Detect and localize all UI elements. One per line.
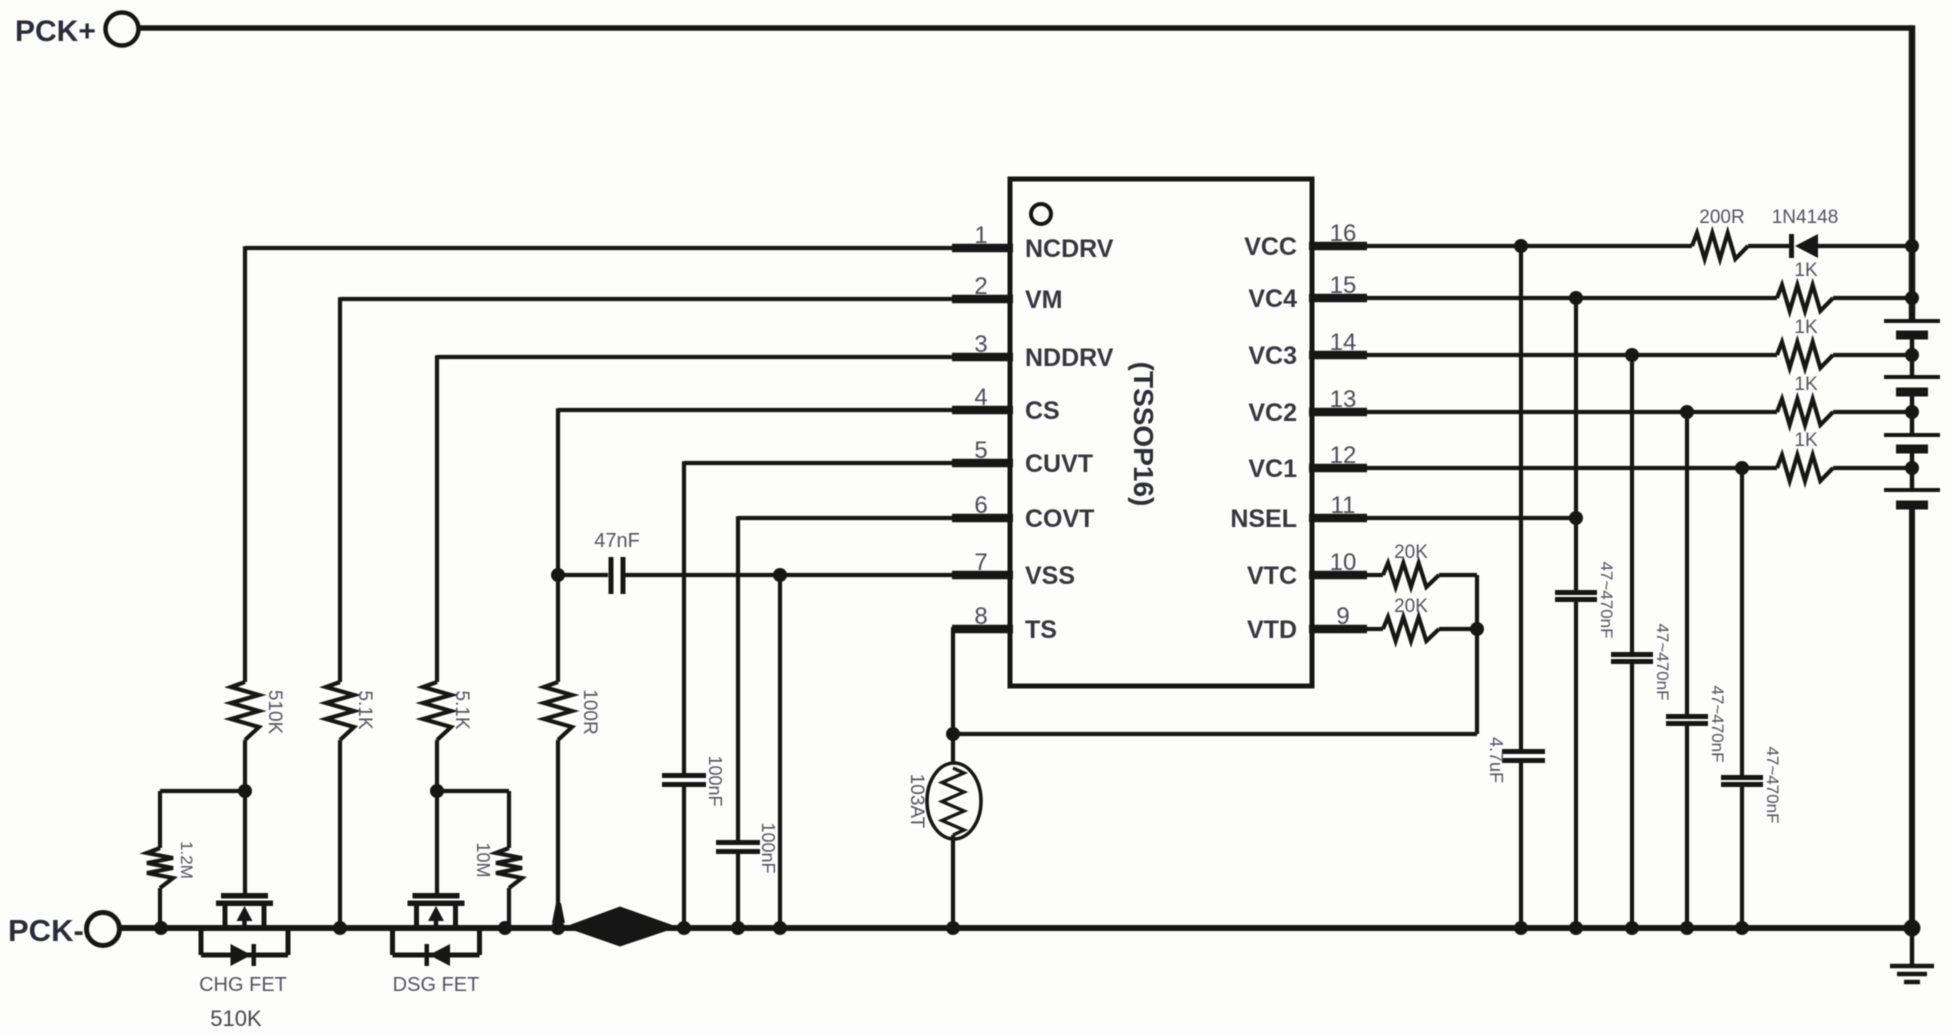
svg-text:1K: 1K (1794, 430, 1818, 451)
svg-text:5: 5 (974, 437, 987, 464)
svg-text:7: 7 (974, 549, 987, 576)
svg-text:1.2M: 1.2M (177, 841, 196, 879)
svg-text:VC2: VC2 (1248, 399, 1297, 427)
svg-text:510K: 510K (264, 690, 285, 735)
svg-text:1K: 1K (1794, 260, 1818, 281)
svg-text:10M: 10M (473, 842, 493, 877)
svg-text:CHG FET: CHG FET (199, 974, 287, 996)
svg-text:VM: VM (1025, 286, 1063, 314)
svg-text:1N4148: 1N4148 (1772, 207, 1839, 228)
svg-text:CUVT: CUVT (1025, 450, 1093, 478)
svg-text:VC3: VC3 (1248, 342, 1297, 370)
svg-text:COVT: COVT (1025, 505, 1094, 533)
svg-text:16: 16 (1330, 220, 1357, 247)
svg-text:PCK+: PCK+ (15, 15, 96, 48)
svg-text:100nF: 100nF (705, 755, 725, 806)
svg-text:VTC: VTC (1247, 562, 1297, 590)
svg-text:47~470nF: 47~470nF (1653, 623, 1672, 700)
svg-text:47~470nF: 47~470nF (1597, 561, 1616, 638)
svg-text:8: 8 (974, 603, 987, 630)
svg-text:VC1: VC1 (1248, 455, 1297, 483)
svg-text:(TSSOP16): (TSSOP16) (1128, 362, 1159, 507)
svg-text:VSS: VSS (1025, 562, 1075, 590)
svg-text:VTD: VTD (1247, 616, 1297, 644)
svg-text:100nF: 100nF (758, 822, 778, 873)
svg-text:VCC: VCC (1244, 233, 1297, 261)
svg-text:11: 11 (1331, 492, 1356, 519)
svg-text:15: 15 (1330, 272, 1357, 299)
svg-text:14: 14 (1330, 329, 1357, 356)
svg-text:1: 1 (974, 222, 987, 249)
svg-text:10: 10 (1330, 549, 1357, 576)
svg-text:100R: 100R (579, 689, 600, 734)
svg-text:VC4: VC4 (1248, 285, 1297, 313)
svg-text:12: 12 (1330, 442, 1357, 469)
svg-text:47~470nF: 47~470nF (1708, 685, 1727, 762)
svg-text:5.1K: 5.1K (354, 690, 375, 729)
svg-text:47~470nF: 47~470nF (1763, 746, 1782, 823)
svg-text:PCK-: PCK- (8, 913, 84, 948)
svg-text:NSEL: NSEL (1230, 505, 1297, 533)
svg-text:200R: 200R (1699, 207, 1744, 228)
svg-text:2: 2 (974, 273, 987, 300)
svg-text:NDDRV: NDDRV (1025, 344, 1114, 372)
svg-text:1K: 1K (1794, 317, 1818, 338)
svg-text:47nF: 47nF (594, 530, 640, 552)
svg-text:TS: TS (1025, 616, 1057, 644)
svg-text:9: 9 (1336, 603, 1349, 630)
svg-text:13: 13 (1330, 386, 1357, 413)
svg-text:20K: 20K (1394, 542, 1428, 563)
svg-text:6: 6 (974, 492, 987, 519)
svg-text:5.1K: 5.1K (451, 690, 472, 729)
svg-text:510K: 510K (210, 1006, 262, 1031)
svg-text:NCDRV: NCDRV (1025, 235, 1114, 263)
svg-text:103AT: 103AT (906, 774, 927, 829)
svg-text:1K: 1K (1794, 374, 1818, 395)
svg-text:4.7uF: 4.7uF (1486, 737, 1506, 783)
svg-text:3: 3 (974, 331, 987, 358)
svg-text:4: 4 (974, 384, 987, 411)
svg-text:CS: CS (1025, 397, 1060, 425)
svg-text:DSG FET: DSG FET (393, 974, 480, 996)
svg-text:20K: 20K (1394, 596, 1428, 617)
